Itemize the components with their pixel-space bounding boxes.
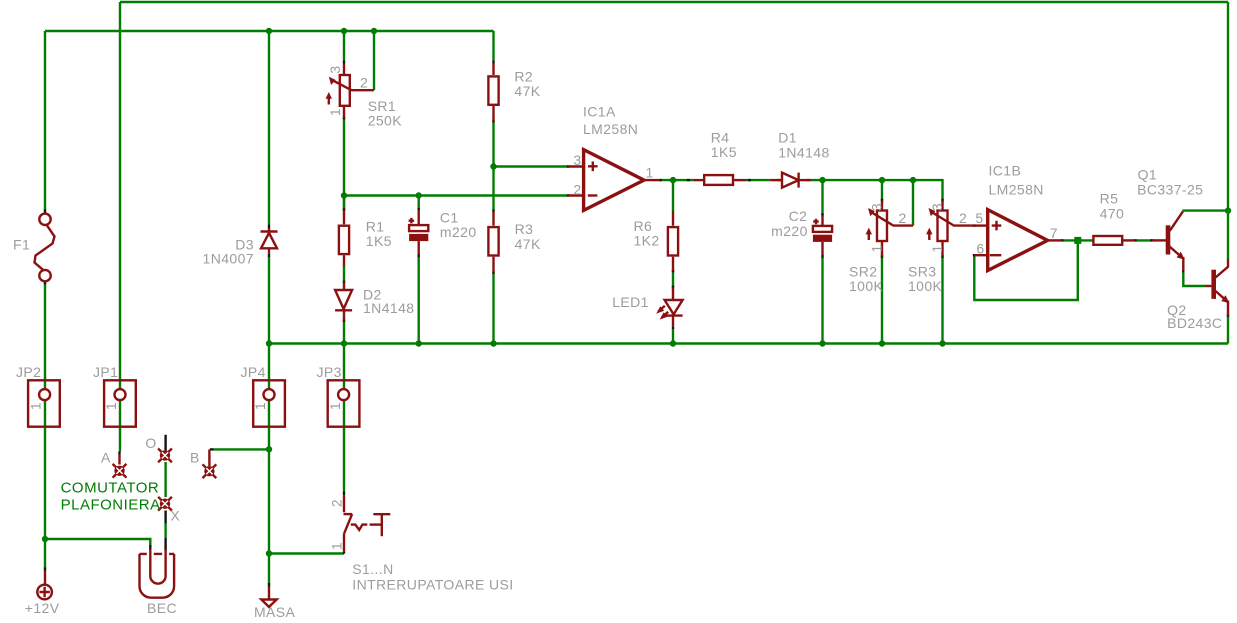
wire IC1A pin3 input: [494, 165, 568, 167]
svg-text:1: 1: [327, 402, 343, 410]
svg-text:Q1: Q1: [1138, 167, 1157, 183]
wire R1 bottom to D2: [343, 266, 345, 283]
diode D1: [770, 129, 830, 187]
svg-text:6: 6: [976, 241, 984, 257]
op-amp IC1A: [568, 103, 660, 210]
capacitor C2: [771, 208, 832, 255]
svg-text:JP4: JP4: [241, 364, 266, 380]
svg-text:250K: 250K: [368, 112, 403, 128]
resistor R3: [488, 211, 541, 273]
resistor R2: [488, 64, 540, 122]
wire pin3 node down to R3: [492, 167, 494, 212]
wire R5 to Q1 base: [1135, 239, 1152, 241]
resistor R1: [339, 210, 392, 267]
svg-text:JP2: JP2: [16, 364, 41, 380]
svg-text:2: 2: [360, 75, 368, 91]
wire F1 top feed: [44, 31, 46, 210]
wire R2 top from rail: [492, 31, 494, 60]
wire SR3 bottom to ground rail: [941, 256, 943, 343]
wire B contact to MASA column: [213, 448, 269, 450]
wire junction to +12V symbol: [44, 539, 46, 568]
wire Q2 emitter to ground rail: [1227, 316, 1229, 344]
lamp BEC: [139, 549, 177, 617]
svg-text:R2: R2: [514, 68, 533, 84]
svg-text:F1: F1: [13, 237, 30, 253]
svg-text:BEC: BEC: [147, 600, 177, 616]
wire X contact to BEC right leg: [164, 524, 166, 538]
svg-text:470: 470: [1100, 205, 1125, 221]
label COMUTATOR PLAFONIERA: [61, 480, 161, 514]
wire C2 top: [821, 180, 823, 215]
wire SR2 bottom to ground rail: [881, 256, 883, 343]
svg-text:INTRERUPATOARE USI: INTRERUPATOARE USI: [352, 577, 513, 593]
svg-text:2: 2: [959, 210, 967, 226]
wire R3 bottom to ground rail: [492, 272, 494, 344]
supply +12V: [25, 571, 60, 617]
svg-text:3: 3: [929, 203, 945, 211]
svg-text:R1: R1: [366, 219, 385, 235]
wire IC1B feedback pin6 to output: [974, 240, 1078, 300]
wire C1 bottom to ground rail: [418, 257, 420, 344]
svg-text:MASA: MASA: [254, 604, 296, 620]
transistor Q1: [1137, 167, 1203, 271]
svg-text:D1: D1: [778, 129, 797, 145]
wire junction to BEC left leg: [45, 539, 150, 546]
contact link line X black lower: [164, 511, 166, 524]
pin tip marks: [45, 60, 1228, 570]
wire D2 cathode to ground rail: [343, 321, 345, 344]
potentiometer SR2: [849, 201, 913, 294]
wire JP4 pin feed: [268, 344, 270, 450]
wire IC1A output to R4/R6 node: [660, 179, 695, 181]
wire SR1 pin2 riser to rail: [373, 31, 375, 90]
wire MASA column: [268, 449, 270, 553]
svg-text:S1...N: S1...N: [352, 561, 393, 577]
svg-text:C2: C2: [789, 208, 808, 224]
wire SR1 pin3 from rail: [343, 31, 345, 60]
svg-text:m220: m220: [440, 224, 477, 240]
svg-text:1K2: 1K2: [634, 233, 660, 249]
wire LED1 cathode to ground rail: [672, 329, 674, 344]
contact X: [158, 497, 180, 524]
svg-text:C1: C1: [440, 209, 459, 225]
svg-text:100K: 100K: [849, 278, 884, 294]
wire JP1 column from top border: [119, 2, 121, 452]
switch S1: [329, 495, 514, 592]
svg-text:LED1: LED1: [612, 294, 649, 310]
svg-text:1N4148: 1N4148: [778, 145, 829, 161]
connector JP2: [16, 364, 60, 427]
transistor Q2: [1167, 260, 1229, 331]
wire F1 bottom to JP2 and +12V junction: [44, 284, 46, 540]
wire node to R6 top: [672, 180, 674, 211]
contact link line A: [118, 452, 120, 455]
svg-text:BC337-25: BC337-25: [1137, 181, 1203, 197]
wire D1 cathode rail to SR3 top: [811, 180, 943, 200]
svg-text:47K: 47K: [514, 83, 540, 99]
wire IC1B output to R5: [1062, 239, 1093, 241]
svg-text:1: 1: [869, 244, 885, 252]
wire S1 bottom to MASA column: [269, 552, 344, 554]
contact link line O-X black upper: [164, 435, 166, 453]
svg-text:BD243C: BD243C: [1167, 315, 1222, 331]
svg-text:1K5: 1K5: [711, 144, 737, 160]
resistor R6: [634, 211, 679, 271]
wire JP3 column from ground rail: [343, 344, 345, 492]
wire +12V rail second row: [45, 30, 494, 32]
diode LED1: [612, 287, 682, 326]
svg-text:100K: 100K: [908, 278, 943, 294]
resistor R5: [1093, 191, 1135, 245]
wire ground bottom rail: [269, 342, 1228, 344]
svg-text:1: 1: [252, 402, 268, 410]
svg-text:B: B: [190, 449, 200, 465]
svg-text:1: 1: [327, 108, 343, 116]
svg-text:R4: R4: [711, 129, 730, 145]
wire Q1 collector to right border node: [1182, 209, 1228, 211]
svg-text:1: 1: [27, 402, 43, 410]
wire SR2 wiper riser: [912, 180, 914, 226]
connector JP4: [241, 364, 285, 427]
wire R6 bottom to LED1: [672, 271, 674, 288]
resistor R4: [694, 129, 746, 185]
svg-text:R3: R3: [515, 221, 534, 237]
ground MASA: [254, 583, 296, 620]
svg-text:LM258N: LM258N: [989, 181, 1044, 197]
wire D3 column lower: [268, 257, 270, 344]
svg-text:3: 3: [327, 65, 343, 73]
wire R4 to D1 anode: [746, 179, 770, 181]
wire right border down to Q1/Q2 collector node: [1227, 2, 1229, 211]
svg-text:2: 2: [329, 499, 345, 507]
svg-text:X: X: [170, 508, 180, 524]
wire node to R1 top: [343, 196, 345, 211]
capacitor C1: [409, 209, 477, 254]
wire SR1 pin1 down to R1 node: [343, 118, 345, 210]
wire R2 bottom to pin3 node: [492, 121, 494, 167]
diode D2: [335, 282, 414, 321]
svg-text:IC1B: IC1B: [989, 162, 1022, 178]
svg-text:COMUTATOR: COMUTATOR: [61, 480, 160, 497]
wire top border net +12V: [120, 1, 1228, 3]
contact O: [145, 435, 172, 462]
wire C2 bottom to ground rail: [821, 258, 823, 344]
svg-text:3: 3: [573, 152, 581, 168]
diode D3: [203, 228, 278, 267]
contact B: [190, 449, 216, 478]
svg-text:JP3: JP3: [317, 364, 342, 380]
wire C1 top: [418, 196, 420, 211]
fuse F1: [13, 214, 55, 282]
svg-text:LM258N: LM258N: [583, 121, 638, 137]
svg-text:PLAFONIERA: PLAFONIERA: [61, 497, 161, 514]
svg-text:3: 3: [869, 203, 885, 211]
svg-text:1N4148: 1N4148: [363, 300, 414, 316]
wire IC1A pin2 input from R1/SR1 node: [344, 194, 568, 196]
wire Q2 collector to node: [1227, 211, 1229, 260]
potentiometer SR1: [326, 64, 403, 129]
wire Q1 emitter to Q2 base: [1183, 271, 1205, 287]
svg-text:1N4007: 1N4007: [203, 251, 254, 267]
svg-text:1: 1: [929, 244, 945, 252]
svg-text:2: 2: [899, 210, 907, 226]
svg-text:IC1A: IC1A: [583, 103, 616, 119]
svg-text:O: O: [145, 435, 156, 451]
wire MASA column to ground symbol: [268, 554, 270, 584]
svg-text:2: 2: [573, 181, 581, 197]
svg-text:1: 1: [103, 402, 119, 410]
svg-text:R5: R5: [1100, 191, 1119, 207]
potentiometer SR3: [908, 201, 974, 294]
op-amp IC1B: [974, 162, 1062, 270]
connector JP1: [93, 364, 136, 427]
wire SR2 top: [881, 180, 883, 200]
svg-text:1: 1: [329, 542, 345, 550]
svg-text:+12V: +12V: [25, 600, 60, 616]
svg-text:1: 1: [646, 164, 654, 180]
svg-text:m220: m220: [771, 223, 808, 239]
svg-text:A: A: [101, 449, 111, 465]
svg-text:5: 5: [975, 210, 983, 226]
svg-text:JP1: JP1: [93, 364, 118, 380]
wire D3 column upper: [268, 31, 270, 225]
contact A: [101, 449, 126, 477]
svg-text:1K5: 1K5: [366, 233, 392, 249]
wire O to X contact link: [164, 462, 166, 497]
svg-text:47K: 47K: [515, 236, 541, 252]
svg-text:7: 7: [1050, 225, 1058, 241]
connector JP3: [317, 364, 360, 427]
